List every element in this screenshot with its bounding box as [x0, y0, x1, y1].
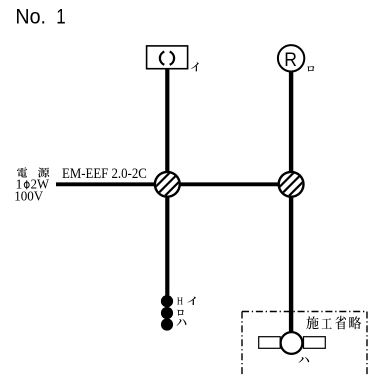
ceiling rosette (rectangular) イ : box [147, 46, 188, 69]
label イ (switch) [187, 297, 195, 305]
junction box J2 (circle with hatching) [279, 172, 304, 197]
svg-text:No.: No. [15, 4, 46, 29]
svg-text:100V: 100V [14, 189, 43, 204]
switch イ (with pilot lamp H) [161, 295, 173, 307]
svg-text:EM-EEF 2.0-2C: EM-EEF 2.0-2C [62, 166, 147, 182]
label イ (ceiling rosette) [191, 62, 199, 71]
text 施工省略 [306, 316, 361, 330]
label ロ (switch) [177, 310, 183, 316]
svg-text:R: R [284, 50, 297, 71]
wire: junction J2 to lamp receptacle (vertical) [289, 190, 293, 333]
dashed outline (construction omitted area) [242, 312, 367, 376]
wire: power feed to junction J1 (horizontal) [56, 182, 167, 186]
label ロ (lamp R) [307, 66, 314, 71]
wire: junction J1 to switches (vertical) [165, 190, 169, 297]
power source label 電源 [17, 167, 49, 177]
svg-text:H: H [177, 297, 183, 308]
lamp receptacle ハ : circle [281, 332, 303, 354]
wire: ceiling box to junction J1 (vertical) [165, 69, 169, 178]
label ハ (lamp receptacle) [298, 357, 309, 363]
ceiling rosette ( ) symbol [160, 52, 174, 65]
label ハ (switch) [177, 319, 187, 326]
wire: junction J1 to junction J2 (horizontal) [167, 182, 291, 186]
switch ロ [161, 307, 173, 319]
lamp R ロ : circle [278, 45, 304, 71]
title No. 1 [15, 4, 65, 29]
junction box J1 (circle with hatching) [155, 172, 180, 197]
switch ハ [161, 318, 173, 330]
lamp receptacle ハ : right wing [304, 337, 326, 349]
lamp receptacle ハ : left wing [259, 337, 281, 349]
svg-text:1: 1 [56, 4, 65, 29]
wire: lamp R to junction J2 (vertical) [289, 72, 293, 178]
